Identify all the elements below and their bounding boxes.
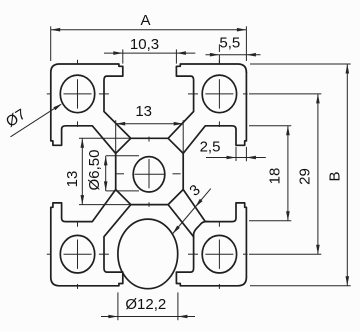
svg-text:13: 13	[64, 171, 81, 188]
svg-text:5,5: 5,5	[219, 34, 240, 51]
svg-text:18: 18	[266, 168, 283, 185]
svg-text:Ø6,50: Ø6,50	[86, 150, 103, 191]
svg-text:Ø12,2: Ø12,2	[125, 296, 166, 313]
svg-text:B: B	[326, 171, 343, 181]
svg-text:10,3: 10,3	[130, 36, 159, 53]
svg-text:2,5: 2,5	[200, 139, 221, 156]
svg-text:13: 13	[135, 103, 152, 120]
svg-text:29: 29	[296, 168, 313, 185]
svg-text:A: A	[140, 12, 150, 29]
